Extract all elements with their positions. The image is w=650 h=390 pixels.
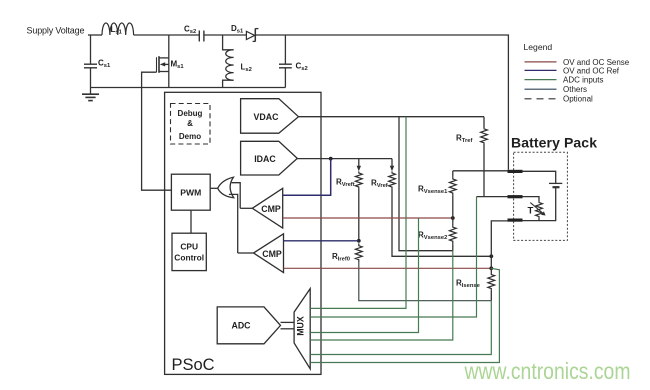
wire CMP1 output	[240, 207, 252, 209]
svg-text:Supply Voltage: Supply Voltage	[27, 26, 85, 36]
legend Others	[525, 85, 588, 94]
wire ADC to MUX bus	[281, 322, 295, 328]
battery terminal minus	[508, 219, 523, 222]
svg-text:Debug: Debug	[178, 109, 203, 118]
wire or-gate input from CMP1	[232, 183, 241, 209]
wire IDAC output	[297, 158, 392, 160]
inductor Ls2	[223, 35, 252, 88]
svg-text:PWM: PWM	[180, 188, 201, 198]
wire CMP1 sense input (OV and OC sense)	[283, 217, 453, 219]
resistor Rvreft	[336, 171, 362, 188]
wire supply to Ls1	[88, 34, 102, 36]
transistor Ms1	[157, 35, 185, 88]
wire Ls1 to Cs2	[134, 34, 200, 36]
block IDAC	[241, 141, 298, 175]
block VDAC	[241, 99, 299, 134]
battery cell	[523, 171, 563, 220]
ADC input wire Risense top	[310, 268, 499, 362]
wire PWM to CPU Control	[190, 210, 192, 233]
block PWM	[171, 174, 210, 210]
capacitor Cs1	[84, 35, 111, 88]
resistor Rtref	[456, 117, 487, 144]
wire VDAC to Rvsense2 bottom	[399, 117, 453, 251]
battery terminal mid	[508, 195, 523, 198]
legend Optional	[525, 95, 594, 104]
wire IDAC ref to CMP1 (OV and OC ref)	[283, 159, 331, 196]
ADC input wire Vsense node	[310, 218, 418, 333]
capacitor Cs2 output	[279, 35, 308, 88]
wire CMP2 sense input (OV and OC sense)	[284, 267, 492, 269]
resistor Rvsense2	[418, 223, 456, 251]
wire IDAC arrow into Rvref	[390, 159, 394, 172]
wire Rvref to Risense top	[392, 189, 491, 257]
block Debug & Demo (optional)	[171, 104, 211, 145]
wire CMP2 ref input (OV and OC ref)	[284, 240, 359, 242]
svg-text:CMP: CMP	[261, 204, 281, 214]
ADC input wire Risense bottom	[310, 301, 491, 355]
block ADC	[217, 307, 280, 344]
ground	[82, 88, 99, 101]
ground rail	[91, 87, 286, 89]
battery pack box (optional)	[514, 152, 568, 240]
svg-text:ADC inputs: ADC inputs	[563, 76, 603, 85]
capacitor Cs2 series	[184, 25, 204, 42]
svg-text:T: T	[528, 206, 534, 217]
block CPU Control	[172, 233, 206, 270]
block PSoC	[165, 92, 321, 374]
comparator CMP1	[252, 188, 282, 228]
wire Risense bottom	[490, 291, 492, 301]
svg-text:IDAC: IDAC	[254, 154, 276, 164]
svg-text:&: &	[187, 119, 193, 128]
svg-text:PSoC: PSoC	[172, 356, 215, 374]
svg-text:www.cntronics.com: www.cntronics.com	[464, 358, 631, 384]
thermistor T	[523, 197, 546, 221]
svg-text:ADC: ADC	[231, 321, 251, 331]
wire Rvsense1 to Rvsense2	[452, 196, 454, 223]
junction IDAC node	[329, 157, 333, 161]
wire VDAC output to Rtref	[299, 116, 485, 118]
svg-text:CPU: CPU	[180, 242, 198, 252]
junction Vsense mid	[451, 216, 455, 220]
resistor Risense	[456, 273, 495, 291]
wire battery minus to Risense	[491, 221, 507, 273]
ADC input wire thermistor node	[310, 197, 476, 317]
svg-text:Battery Pack: Battery Pack	[511, 135, 597, 151]
block MUX	[294, 289, 310, 369]
resistor Riref0	[332, 243, 362, 262]
inductor Ls1	[102, 23, 134, 36]
wire IDAC arrow into Rvreft	[357, 159, 361, 172]
wire battery mid line	[477, 196, 508, 198]
wire Rtref to battery mid	[483, 143, 485, 196]
junction Iref node	[357, 239, 361, 243]
resistor Rvsense1	[418, 171, 456, 196]
wire or-gate input from CMP2	[229, 194, 238, 253]
wire PWM to or-gate	[210, 187, 218, 189]
comparator CMP2	[254, 234, 284, 273]
svg-text:VDAC: VDAC	[254, 112, 280, 122]
wire CMP2 output	[238, 252, 254, 254]
svg-text:Demo: Demo	[179, 132, 201, 141]
legend ADC inputs	[525, 76, 604, 85]
svg-text:CMP: CMP	[262, 249, 282, 259]
svg-text:Legend: Legend	[524, 42, 553, 52]
battery terminal plus	[508, 170, 523, 173]
junction Risense net	[489, 254, 493, 258]
wire Ms1 gate to PWM	[142, 72, 172, 190]
wire battery plus line	[453, 170, 509, 172]
diode Ds1 (schottky)	[231, 24, 258, 42]
svg-text:MUX: MUX	[296, 316, 306, 336]
legend OV and OC Sense	[525, 58, 630, 67]
or-gate	[218, 177, 234, 198]
legend OV and OC Ref	[525, 66, 620, 75]
wire Cs2 to diode	[204, 34, 247, 36]
svg-text:Control: Control	[174, 253, 204, 263]
ADC input wire VDAC sense	[310, 117, 406, 309]
svg-text:Optional: Optional	[563, 95, 593, 104]
svg-text:OV and OC Ref: OV and OC Ref	[563, 66, 620, 75]
wire diode to battery plus	[255, 35, 508, 170]
wire Rvreft to Iref node	[358, 189, 360, 241]
svg-text:Others: Others	[563, 85, 587, 94]
junction Risense top	[489, 266, 493, 270]
ADC input wire Vsense2 bottom	[310, 251, 453, 340]
wire Riref0 to Risense bottom	[359, 262, 492, 301]
resistor Rvref	[371, 171, 395, 189]
